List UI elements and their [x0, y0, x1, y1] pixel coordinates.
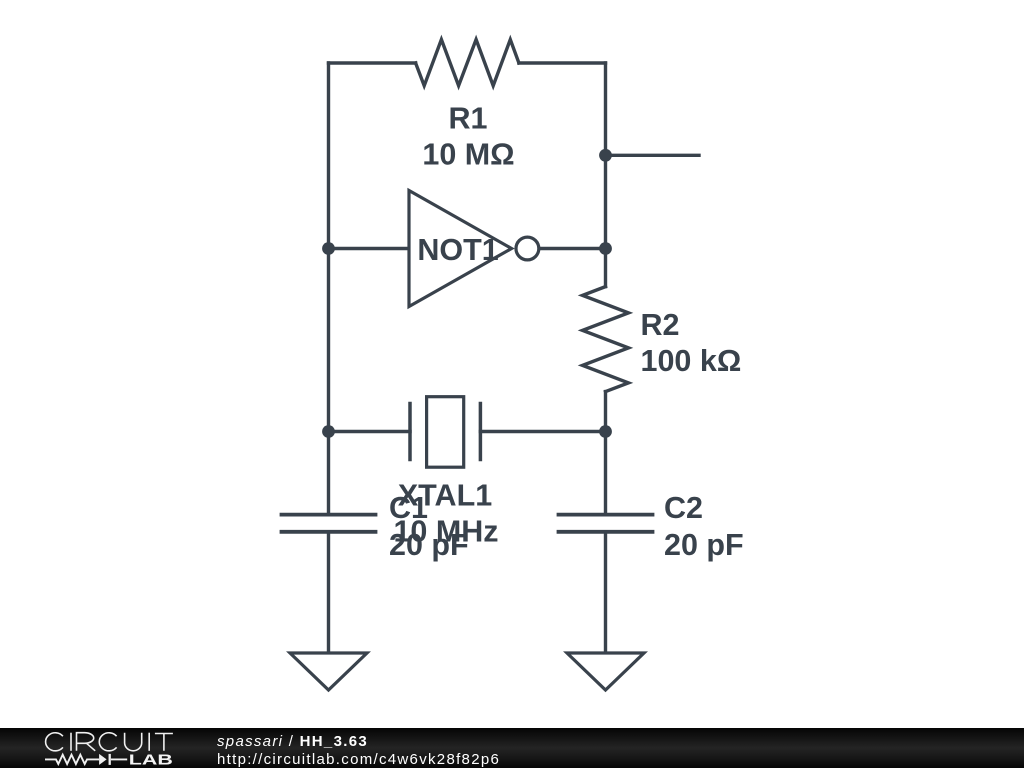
svg-text:R1: R1 [449, 102, 488, 136]
capacitor C1 top plate [282, 513, 376, 517]
wire top left segment (left rail to R1) [329, 61, 416, 64]
svg-text:C1: C1 [389, 491, 428, 525]
svg-text:100 kΩ: 100 kΩ [641, 344, 742, 378]
footer url line [217, 751, 500, 768]
wire NOT1 output [540, 247, 605, 250]
logo letter T [155, 734, 173, 751]
wire C1 bottom to left ground [327, 532, 330, 653]
footer title line [217, 733, 368, 750]
logo diode triangle [99, 754, 107, 765]
svg-text:10 MΩ: 10 MΩ [422, 138, 514, 172]
capacitor C2 top plate [559, 513, 653, 517]
resistor R2 body [583, 287, 629, 392]
logo diode bar [109, 754, 111, 765]
logo letter R [77, 733, 96, 751]
logo letter I [148, 733, 150, 751]
junction node XTAL1 left [322, 425, 335, 438]
ground symbol right [567, 653, 644, 690]
crystal XTAL1 left plate [408, 404, 412, 460]
svg-text:NOT1: NOT1 [417, 233, 498, 267]
resistor R1 body [416, 40, 519, 86]
svg-text:20 pF: 20 pF [664, 528, 744, 562]
wire output tap [606, 154, 700, 157]
wire right rail upper (top node to R2 top) [604, 63, 607, 287]
junction node output tap [599, 149, 612, 162]
junction node NOT1 output [599, 242, 612, 255]
inverter NOT1 bubble [516, 237, 539, 260]
logo letter U [125, 733, 142, 751]
wire XTAL1 right lead [480, 430, 605, 433]
logo letter C [99, 733, 116, 751]
crystal XTAL1 right plate [479, 404, 483, 460]
wire right rail middle (R2 bottom to C2 top plate) [604, 392, 607, 515]
wire C2 bottom to right ground [604, 532, 607, 653]
capacitor C2 bottom plate [559, 530, 653, 534]
wire top right segment (R1 to right rail) [519, 61, 606, 64]
svg-text:R2: R2 [641, 308, 680, 342]
logo letter I [70, 733, 72, 751]
wire NOT1 input [329, 247, 410, 250]
svg-text:C2: C2 [664, 491, 703, 525]
footer bar [0, 728, 1024, 768]
junction node XTAL1 right [599, 425, 612, 438]
ground symbol left [290, 653, 367, 690]
CircuitLab logo [0, 728, 190, 768]
capacitor C1 bottom plate [282, 530, 376, 534]
logo resistor squiggle [45, 755, 99, 764]
logo letter C [46, 733, 63, 751]
junction node NOT1 input [322, 242, 335, 255]
svg-text:20 pF: 20 pF [389, 528, 469, 562]
wire XTAL1 left lead [329, 430, 411, 433]
crystal XTAL1 body rectangle [427, 397, 464, 468]
wire left rail (top node to C1 top plate) [327, 63, 330, 515]
logo wire to LAB [111, 758, 127, 760]
inverter NOT1 triangle [409, 191, 512, 307]
svg-text:LAB: LAB [129, 751, 173, 768]
